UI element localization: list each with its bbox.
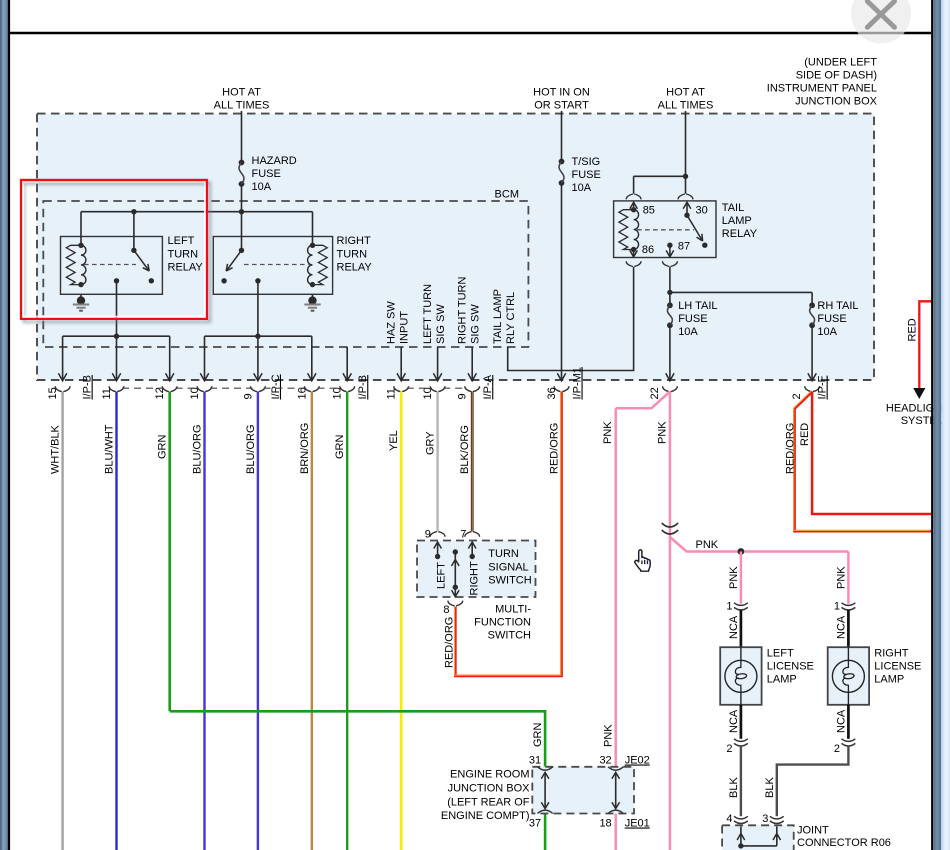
- connector pin 22: [663, 386, 670, 391]
- svg-text:NCA: NCA: [835, 709, 847, 733]
- wire WHT/BLK pin 15: [61, 392, 63, 850]
- node license lamp tee: [738, 548, 745, 555]
- wire hazard feed vertical: [241, 111, 243, 163]
- svg-text:31: 31: [529, 755, 541, 767]
- svg-text:HOT AT: HOT AT: [222, 87, 261, 99]
- wire right relay output down: [257, 281, 259, 336]
- switch arm left relay: [131, 248, 136, 253]
- ground right turn relay: [312, 294, 314, 300]
- wire BCM RIGHT TURN SIG SW: [471, 347, 473, 381]
- svg-text:SIDE OF DASH): SIDE OF DASH): [796, 70, 877, 82]
- svg-text:2: 2: [791, 393, 803, 399]
- svg-text:9: 9: [425, 529, 431, 541]
- right frame line: [931, 0, 933, 850]
- svg-text:86: 86: [642, 244, 654, 256]
- svg-text:30: 30: [696, 205, 708, 217]
- svg-text:ENGINE ROOM: ENGINE ROOM: [450, 769, 529, 781]
- wire BLK right license lamp to joint connector pin 3: [777, 746, 849, 817]
- wire bus to left relay switch pivot: [133, 212, 135, 251]
- wire down to relay pin 85: [633, 176, 635, 194]
- svg-text:NCA: NCA: [835, 615, 847, 639]
- svg-text:SIG SW: SIG SW: [470, 304, 482, 344]
- svg-text:9: 9: [457, 393, 469, 399]
- switch arm tail relay: [684, 213, 689, 218]
- svg-text:7: 7: [460, 529, 466, 541]
- wire drop to pin 10: [204, 336, 206, 380]
- connector pin 10: [340, 386, 347, 391]
- connector arcs TSS pin 7: [465, 532, 472, 537]
- svg-text:TURN: TURN: [337, 248, 368, 260]
- svg-text:16: 16: [296, 387, 308, 399]
- connector arcs left license lamp pin 2: [734, 739, 748, 742]
- svg-text:2: 2: [834, 743, 840, 755]
- wire LH tail fuse to pin 22: [669, 325, 671, 380]
- svg-text:ENGINE COMPT): ENGINE COMPT): [441, 810, 530, 822]
- connector pin 9: [465, 386, 472, 391]
- wire drop to pin 15: [62, 336, 64, 380]
- TSS pin 7 contact: [471, 542, 473, 557]
- svg-text:LEFT: LEFT: [767, 648, 794, 660]
- svg-text:FUSE: FUSE: [678, 313, 707, 325]
- svg-text:RED: RED: [799, 423, 811, 446]
- svg-text:RIGHT TURN: RIGHT TURN: [457, 277, 469, 344]
- mechanical link dashed left relay: [84, 264, 136, 266]
- svg-text:2: 2: [726, 743, 732, 755]
- wire bus to right relay coil: [312, 212, 314, 246]
- svg-text:JUNCTION BOX: JUNCTION BOX: [448, 783, 531, 795]
- node tail relay feed split: [683, 174, 688, 179]
- svg-text:15: 15: [47, 387, 59, 399]
- wire NCA out of right license lamp: [847, 705, 850, 739]
- notches engine box top: [538, 767, 553, 770]
- pin 86 exit arrow: [633, 250, 635, 257]
- mechanical link dashed right relay: [244, 264, 309, 266]
- svg-text:JUNCTION BOX: JUNCTION BOX: [795, 96, 878, 108]
- wire pin 87 to tail fuses: [669, 267, 671, 293]
- wire GRN horizontal to engine room junction box: [170, 711, 545, 766]
- relay K2 RIGHT TURN RELAY box: [213, 237, 332, 295]
- wire PNK drop left license lamp: [740, 552, 743, 604]
- fuse RH TAIL FUSE 10A: [811, 292, 813, 305]
- connector pin 12: [162, 386, 169, 391]
- svg-text:MULTI-: MULTI-: [495, 604, 531, 616]
- svg-text:FUSE: FUSE: [572, 169, 601, 181]
- wire BCM output to pin 10 GRN: [346, 347, 348, 381]
- svg-text:BLK: BLK: [728, 777, 740, 798]
- right scrollbar dark band: [933, 0, 941, 850]
- svg-text:YEL: YEL: [388, 430, 400, 451]
- svg-text:LEFT: LEFT: [168, 235, 195, 247]
- svg-text:RIGHT: RIGHT: [874, 648, 909, 660]
- svg-text:BCM: BCM: [495, 189, 519, 201]
- BCM dashed sub-box: [43, 201, 528, 347]
- svg-text:SIGNAL: SIGNAL: [488, 561, 528, 573]
- connector arcs left license lamp pin 1: [734, 603, 748, 606]
- joint connector internal bus: [740, 827, 742, 846]
- wire YEL pin 11: [400, 392, 403, 850]
- svg-text:JE01: JE01: [625, 818, 650, 830]
- notches engine box bottom: [538, 810, 553, 813]
- svg-text:HOT IN ON: HOT IN ON: [533, 87, 590, 99]
- wire BLU/WHT pin 11: [115, 392, 117, 850]
- svg-text:36: 36: [546, 387, 558, 399]
- splice connector on PNK wire: [662, 523, 678, 527]
- ENGINE ROOM JUNCTION BOX dashed box: [532, 767, 634, 814]
- wire GRN pin 12 vertical: [168, 392, 171, 712]
- svg-text:TURN: TURN: [168, 248, 199, 260]
- wire PNK drop right license lamp: [847, 552, 850, 604]
- mechanical link dashed tail relay: [637, 229, 694, 231]
- svg-text:I/P-F: I/P-F: [817, 375, 829, 399]
- connector pin 15: [55, 386, 62, 391]
- connector pin 11: [394, 386, 401, 391]
- svg-text:PNK: PNK: [696, 539, 719, 551]
- svg-text:(UNDER LEFT: (UNDER LEFT: [804, 57, 877, 69]
- svg-text:LH TAIL: LH TAIL: [678, 300, 717, 312]
- svg-text:PNK: PNK: [602, 421, 614, 444]
- svg-text:JOINT: JOINT: [797, 825, 829, 837]
- svg-text:HOT AT: HOT AT: [666, 87, 705, 99]
- wire BCM HAZ SW INPUT: [400, 347, 402, 381]
- svg-text:10: 10: [189, 387, 201, 399]
- wire bus to left relay coil: [80, 212, 82, 246]
- wire RH tail fuse to pin 2: [811, 325, 813, 380]
- svg-text:LICENSE: LICENSE: [874, 661, 921, 673]
- close button line-through: [858, 32, 904, 34]
- wire RED/ORG pin 2 branch: [795, 392, 932, 532]
- through-arrow pin 32-18: [615, 773, 617, 809]
- svg-text:TAIL: TAIL: [722, 202, 744, 214]
- svg-text:OR START: OR START: [534, 100, 589, 112]
- svg-text:GRN: GRN: [334, 435, 346, 460]
- switch S1 TURN SIGNAL SWITCH box: [417, 541, 536, 598]
- connector pin 10: [430, 386, 437, 391]
- wire RED pin 2 down and right: [812, 392, 931, 514]
- right scrollbar light band: [941, 0, 950, 850]
- svg-text:BRN/ORG: BRN/ORG: [299, 423, 311, 474]
- mouse cursor hand pointer: [635, 550, 650, 571]
- close button circle: [851, 0, 911, 44]
- wire BRN/ORG pin 16: [311, 392, 313, 850]
- svg-text:GRN: GRN: [532, 723, 544, 748]
- svg-text:PNK: PNK: [603, 724, 615, 747]
- svg-text:85: 85: [643, 205, 655, 217]
- svg-text:NCA: NCA: [728, 709, 740, 733]
- svg-text:22: 22: [649, 387, 661, 399]
- left frame line: [8, 0, 10, 850]
- wire PNK branch to license lamps: [670, 537, 849, 552]
- svg-text:18: 18: [599, 818, 611, 830]
- svg-text:FUNCTION: FUNCTION: [474, 617, 531, 629]
- svg-text:JE02: JE02: [625, 755, 650, 767]
- svg-text:1: 1: [834, 601, 840, 613]
- svg-text:RELAY: RELAY: [722, 228, 758, 240]
- connector arcs relay pin 85: [626, 194, 633, 199]
- svg-text:10A: 10A: [817, 326, 837, 338]
- svg-text:LAMP: LAMP: [874, 674, 904, 686]
- pin 85 entry arrow: [633, 202, 635, 210]
- svg-text:RED/ORG: RED/ORG: [785, 423, 797, 474]
- wire BLK left license lamp to joint connector pin 4: [740, 746, 742, 817]
- svg-text:HAZ SW: HAZ SW: [386, 301, 398, 344]
- svg-text:I/P-B: I/P-B: [82, 375, 94, 399]
- svg-text:T/SIG: T/SIG: [572, 156, 601, 168]
- svg-text:RED/ORG: RED/ORG: [443, 617, 455, 668]
- svg-text:RELAY: RELAY: [168, 262, 204, 274]
- svg-text:I/P-C: I/P-C: [270, 374, 282, 399]
- wire bus to right relay switch pivot: [241, 212, 243, 251]
- svg-text:32: 32: [599, 755, 611, 767]
- wire relay supply bus: [81, 211, 313, 213]
- highlight red rectangle inner white stripe: [23, 182, 204, 316]
- svg-text:TAIL LAMP: TAIL LAMP: [492, 289, 504, 344]
- svg-text:LEFT TURN: LEFT TURN: [422, 284, 434, 344]
- svg-text:FUSE: FUSE: [817, 313, 846, 325]
- wire PNK pin 22 branch to engine room box pin 32: [616, 392, 670, 409]
- connector arcs TSS pin 8: [448, 601, 455, 606]
- fuse LH TAIL FUSE 10A: [669, 292, 671, 305]
- svg-text:ALL TIMES: ALL TIMES: [658, 100, 714, 112]
- svg-text:RELAY: RELAY: [337, 262, 373, 274]
- wire PNK pin 22 main down: [669, 392, 672, 850]
- svg-text:(LEFT REAR OF: (LEFT REAR OF: [447, 797, 530, 809]
- svg-text:INPUT: INPUT: [399, 311, 411, 344]
- svg-text:4: 4: [726, 813, 732, 825]
- connector pin 36: [554, 386, 561, 391]
- connector arcs tail relay pin 87 below box: [663, 261, 670, 266]
- svg-text:WHT/BLK: WHT/BLK: [50, 424, 62, 474]
- svg-text:LAMP: LAMP: [722, 215, 752, 227]
- wire drop to pin 11: [116, 336, 118, 380]
- svg-text:FUSE: FUSE: [252, 168, 281, 180]
- svg-text:10A: 10A: [572, 182, 592, 194]
- svg-text:RED: RED: [907, 318, 919, 341]
- svg-text:10A: 10A: [678, 326, 698, 338]
- wire NCA into right license lamp: [847, 610, 850, 647]
- wire left relay distribution bus: [63, 335, 170, 337]
- svg-text:37: 37: [529, 818, 541, 830]
- svg-text:LEFT: LEFT: [435, 562, 447, 589]
- switch arm right relay: [239, 248, 244, 253]
- svg-text:GRN: GRN: [157, 435, 169, 460]
- svg-text:3: 3: [762, 813, 768, 825]
- svg-text:11: 11: [386, 388, 398, 399]
- wire hot in on feed: [561, 111, 563, 162]
- connector arcs relay pin 30: [678, 194, 685, 199]
- svg-text:TURN: TURN: [488, 548, 519, 560]
- svg-text:HAZARD: HAZARD: [252, 155, 297, 167]
- lamp RIGHT LICENSE LAMP box: [828, 647, 869, 705]
- svg-text:11: 11: [101, 388, 113, 399]
- wire BCM TAIL LAMP RLY CTRL to relay pin 86: [508, 267, 634, 371]
- close button X icon: [867, 1, 894, 27]
- JOINT CONNECTOR R06 dashed box: [722, 825, 794, 850]
- svg-text:BLU/ORG: BLU/ORG: [192, 424, 204, 474]
- wire drop to pin 12: [169, 336, 171, 380]
- pin 30 entry arrow: [686, 202, 688, 215]
- svg-text:10A: 10A: [252, 181, 272, 193]
- svg-text:LICENSE: LICENSE: [767, 661, 814, 673]
- top window border line: [10, 32, 931, 34]
- connector arcs right license lamp pin 1: [842, 603, 856, 606]
- connector group link dashes right: [407, 387, 432, 389]
- svg-text:10: 10: [422, 387, 434, 399]
- coil right turn relay (inductor + resistor): [310, 243, 315, 248]
- svg-text:8: 8: [443, 604, 449, 616]
- svg-text:SWITCH: SWITCH: [488, 630, 531, 642]
- connector arcs joint connector pin 3: [770, 816, 784, 819]
- connector pin 16: [304, 386, 311, 391]
- wire NCA out of left license lamp: [740, 705, 743, 739]
- relay output terminal left: [114, 278, 119, 283]
- svg-text:SIG SW: SIG SW: [435, 304, 447, 344]
- svg-text:PNK: PNK: [656, 421, 668, 444]
- fuse HAZARD FUSE 10A: [239, 160, 245, 166]
- wire right relay distribution bus: [205, 335, 312, 337]
- coil tail lamp relay: [631, 207, 636, 212]
- svg-text:RED/ORG: RED/ORG: [549, 423, 561, 474]
- fuse T/SIG FUSE 10A: [559, 159, 565, 165]
- svg-text:RIGHT: RIGHT: [469, 561, 481, 596]
- arrow headlight system: [913, 388, 925, 399]
- connector group link dashes left: [122, 387, 164, 389]
- wire BLK/ORG pin 9 to turn signal switch: [471, 392, 474, 532]
- lamp LEFT LICENSE LAMP box: [720, 647, 761, 705]
- wire GRY pin 10 to turn signal switch: [436, 392, 438, 532]
- wire left relay output down: [116, 281, 118, 336]
- relay output terminal right: [255, 278, 260, 283]
- svg-text:BLK: BLK: [764, 777, 776, 798]
- svg-text:10: 10: [332, 387, 344, 399]
- svg-text:PNK: PNK: [728, 566, 740, 589]
- svg-text:I/P-M1: I/P-M1: [572, 367, 584, 399]
- wire BCM LEFT TURN SIG SW: [437, 347, 439, 381]
- svg-text:I/P-A: I/P-A: [482, 374, 494, 399]
- svg-text:INSTRUMENT PANEL: INSTRUMENT PANEL: [767, 83, 877, 95]
- junction box (instrument panel) light blue dashed enclosure: [37, 114, 874, 380]
- wire drop to pin 16: [311, 336, 313, 380]
- connector pin 10: [197, 386, 204, 391]
- coil left turn relay (inductor + resistor): [78, 243, 83, 248]
- through-arrow pin 31-37: [544, 773, 546, 809]
- wire t/sig fuse down to pin 36: [561, 183, 563, 381]
- wire PNK through engine box to bottom: [614, 814, 617, 850]
- ground left turn relay: [80, 294, 82, 300]
- svg-text:12: 12: [154, 387, 166, 399]
- svg-text:NCA: NCA: [728, 615, 740, 639]
- bulb left license lamp: [740, 647, 742, 660]
- left scrollbar bar: [0, 0, 8, 850]
- svg-text:CONNECTOR R06: CONNECTOR R06: [797, 837, 891, 849]
- connector pin 9: [251, 386, 258, 391]
- TSS pin 9 contact: [437, 542, 439, 557]
- wire BLU/ORG pin 10: [203, 392, 205, 850]
- wire RED to headlight system: [919, 301, 931, 388]
- svg-text:SWITCH: SWITCH: [488, 575, 531, 587]
- node bus-left-switch junction: [131, 209, 136, 214]
- wire GRN through engine box to bottom: [544, 814, 547, 850]
- connector pin 11: [109, 386, 116, 391]
- connector arcs TSS pin 9: [430, 532, 437, 537]
- svg-text:BLK/ORG: BLK/ORG: [459, 425, 471, 474]
- TSS wiper arm: [453, 549, 458, 554]
- wire drop to pin 9: [257, 336, 259, 380]
- wire NCA into left license lamp: [740, 610, 743, 647]
- connector pin 2: [805, 386, 812, 391]
- svg-text:87: 87: [678, 241, 690, 253]
- svg-text:RLY CTRL: RLY CTRL: [505, 292, 517, 344]
- highlight red rectangle around left turn relay: [21, 180, 207, 319]
- wire down to relay pin 30: [685, 176, 687, 194]
- highlight red rectangle shadow: [24, 183, 210, 322]
- wire GRN pin 10: [346, 392, 348, 850]
- pin 87 terminal and exit arrow: [667, 243, 672, 248]
- connector arcs tail relay pin 86 below box: [626, 261, 633, 266]
- connector arcs joint connector pin 4: [734, 816, 748, 819]
- svg-text:PNK: PNK: [835, 566, 847, 589]
- svg-text:BLU/ORG: BLU/ORG: [245, 424, 257, 474]
- svg-text:RIGHT: RIGHT: [337, 235, 372, 247]
- svg-text:1: 1: [726, 601, 732, 613]
- bulb right license lamp: [847, 647, 849, 660]
- connector arcs right license lamp pin 2: [842, 739, 856, 742]
- node bus-hazard junction: [239, 209, 244, 214]
- svg-text:9: 9: [242, 393, 254, 399]
- svg-text:LAMP: LAMP: [767, 674, 797, 686]
- highlight red rectangle inner top shading: [0, 0, 1, 1]
- wire hazard fuse to bus: [241, 184, 243, 212]
- wire fuse bus to RH tail fuse: [670, 291, 812, 293]
- wire hot at all times feed right: [685, 111, 687, 176]
- wire RED/ORG pin 36 to turn signal switch pin 8: [455, 392, 561, 676]
- wire BLU/ORG pin 9: [257, 392, 259, 850]
- svg-text:BLU/WHT: BLU/WHT: [104, 424, 116, 474]
- svg-text:RH TAIL: RH TAIL: [817, 300, 858, 312]
- relay K3 TAIL LAMP RELAY box: [614, 201, 716, 258]
- svg-text:I/P-B: I/P-B: [357, 375, 369, 399]
- svg-text:GRY: GRY: [425, 431, 437, 455]
- svg-text:ALL TIMES: ALL TIMES: [214, 100, 270, 112]
- relay K1 LEFT TURN RELAY box: [61, 237, 163, 295]
